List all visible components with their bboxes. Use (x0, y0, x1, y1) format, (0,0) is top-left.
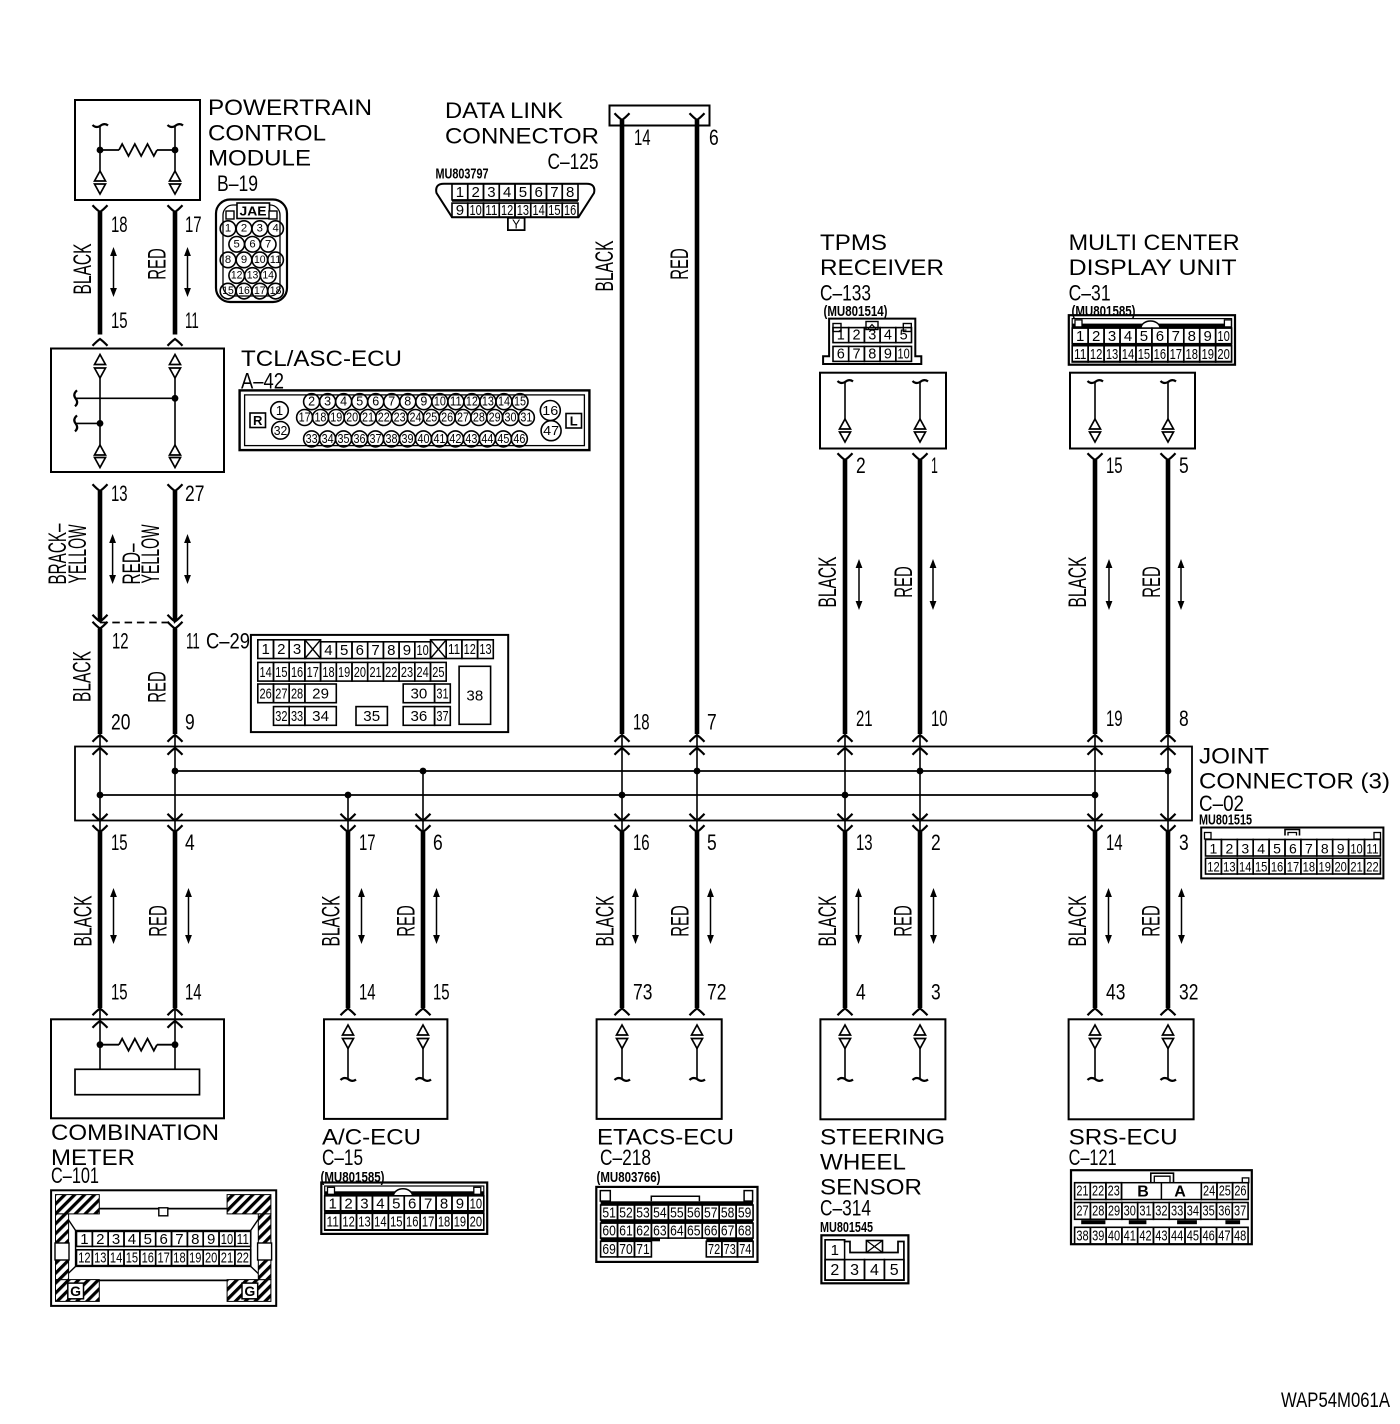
C-133 cell 8 (864, 346, 880, 361)
C-29 cell 24 (415, 662, 431, 681)
svg-text:10: 10 (1350, 840, 1363, 856)
TCL internal wire (99, 378, 101, 445)
svg-text:B–19: B–19 (217, 171, 258, 196)
svg-text:10: 10 (417, 642, 429, 659)
svg-text:43: 43 (1155, 1228, 1167, 1244)
svg-text:JAE: JAE (240, 204, 267, 219)
wire DLC pin 14 to joint pin 18 (BLACK) (620, 120, 625, 734)
svg-text:44: 44 (481, 432, 493, 446)
svg-text:27: 27 (185, 481, 204, 506)
C-133 cell 3 (864, 328, 880, 343)
svg-text:5: 5 (340, 642, 348, 659)
svg-text:11: 11 (1366, 840, 1379, 856)
svg-text:33: 33 (306, 432, 318, 446)
joint bottom edge chevrons (416, 814, 431, 821)
svg-text:54: 54 (653, 1205, 666, 1222)
svg-text:25: 25 (1219, 1184, 1231, 1200)
svg-text:74: 74 (739, 1241, 751, 1258)
wire PCM pin 17 to TCL pin 11 (RED) (168, 205, 183, 212)
A-42 pin 4 (336, 394, 352, 410)
svg-text:20: 20 (1217, 346, 1229, 363)
joint bottom edge chevrons (341, 814, 356, 821)
meter internal block (75, 1069, 200, 1094)
A-42 pin 46 (511, 431, 527, 447)
component MULTI CENTER DISPLAY UNIT box (1070, 373, 1195, 449)
svg-text:7: 7 (265, 238, 271, 250)
C-218 cell 67 (719, 1223, 736, 1238)
C-101 cell 18 (172, 1250, 188, 1266)
svg-text:11: 11 (485, 202, 497, 219)
A-42 pin 3 (320, 394, 336, 410)
svg-text:C–133: C–133 (820, 281, 871, 306)
C-02 cell 4 (1253, 840, 1269, 857)
svg-text:14: 14 (262, 270, 274, 282)
svg-text:16: 16 (542, 403, 558, 418)
C-29 cell 34 (305, 707, 336, 726)
svg-text:56: 56 (687, 1205, 700, 1222)
C-121 cell 28 (1090, 1203, 1106, 1220)
arrow (858, 562, 860, 607)
C-218 cell 64 (668, 1223, 685, 1238)
svg-text:18: 18 (314, 411, 326, 425)
svg-text:5: 5 (890, 1262, 899, 1279)
svg-text:1: 1 (225, 223, 231, 235)
svg-text:38: 38 (386, 432, 398, 446)
C-02 cell 16 (1269, 858, 1285, 874)
joint internal wire (black) (99, 748, 101, 832)
svg-text:G: G (70, 1283, 81, 1299)
A-42 pin 37 (368, 431, 384, 447)
C-121 cell 34 (1185, 1203, 1201, 1220)
svg-text:3: 3 (257, 223, 263, 235)
svg-text:RED: RED (1138, 566, 1166, 598)
svg-text:30: 30 (411, 685, 428, 702)
C-29 cell 6 (352, 642, 368, 659)
svg-text:2: 2 (856, 453, 866, 478)
bus junction dot (1092, 792, 1099, 799)
C-101 cell 21 (219, 1250, 235, 1266)
C-02 cell 10 (1349, 840, 1365, 857)
svg-text:16: 16 (1271, 859, 1284, 875)
svg-text:3: 3 (487, 184, 495, 201)
C-125 cell 6 (531, 184, 547, 200)
svg-text:17: 17 (422, 1214, 434, 1231)
svg-text:8: 8 (387, 642, 395, 659)
A-42 pin 5 (352, 394, 368, 410)
svg-text:Y: Y (512, 218, 521, 232)
svg-text:37: 37 (370, 432, 382, 446)
svg-text:9: 9 (1204, 328, 1212, 345)
svg-text:17: 17 (299, 411, 311, 425)
C-29 cell 9 (399, 642, 415, 659)
svg-text:8: 8 (1188, 328, 1196, 345)
C-101 G box right (242, 1283, 258, 1299)
bus junction dot (345, 792, 352, 799)
svg-text:8: 8 (225, 254, 231, 266)
svg-text:(MU803766): (MU803766) (597, 1169, 661, 1186)
C-29 cell 2 (274, 640, 290, 659)
svg-text:22: 22 (1092, 1184, 1104, 1200)
C-02 cell 5 (1269, 840, 1285, 857)
svg-text:43: 43 (465, 432, 477, 446)
B-19 pin 4 (268, 221, 284, 237)
C-101 side notches (55, 1243, 69, 1260)
C-218 cell 58 (719, 1205, 736, 1220)
svg-text:9: 9 (456, 1195, 464, 1212)
svg-text:14: 14 (374, 1214, 386, 1231)
svg-text:9: 9 (185, 710, 195, 735)
svg-text:10: 10 (470, 1195, 482, 1212)
wire joint to bottom component (RED) (173, 832, 178, 1008)
C-02 cell 14 (1237, 858, 1253, 874)
svg-text:13: 13 (358, 1214, 370, 1231)
A-42 pin 25 (423, 410, 439, 426)
connector C-218 drawing (596, 1187, 757, 1262)
C-101 cell 4 (124, 1231, 140, 1246)
wire joint to bottom component (RED) (1166, 832, 1171, 1008)
svg-text:4: 4 (128, 1231, 136, 1248)
C-101 cell 20 (203, 1250, 219, 1266)
connector C-31 drawing (1069, 315, 1235, 365)
svg-text:32: 32 (1179, 980, 1198, 1005)
svg-text:5: 5 (707, 830, 717, 855)
wire joint to bottom component (BLACK) (843, 832, 848, 1008)
C-121 cell 21 (1075, 1183, 1091, 1200)
C-133 cell 1 (833, 328, 849, 343)
PCM internal right wire with hook (168, 124, 184, 127)
C-125 cell 8 (562, 184, 578, 200)
svg-text:13: 13 (247, 270, 259, 282)
joint top edge chevron (913, 748, 928, 755)
C-29 cell 4 (321, 642, 337, 659)
svg-text:1: 1 (261, 641, 269, 658)
component COMBINATION METER box (51, 1019, 224, 1118)
C-02 cell 9 (1333, 840, 1349, 857)
svg-text:7: 7 (1305, 840, 1313, 856)
svg-text:35: 35 (1203, 1203, 1215, 1219)
C-125 cell 11 (484, 203, 500, 217)
svg-text:6: 6 (356, 642, 364, 659)
joint bottom edge chevrons (913, 814, 928, 821)
C-101 cell 19 (187, 1250, 203, 1266)
C-29 cell 18 (321, 662, 337, 681)
svg-text:36: 36 (411, 708, 428, 725)
C-02 cell 17 (1285, 858, 1301, 874)
svg-text:12: 12 (231, 270, 243, 282)
svg-text:10: 10 (1217, 328, 1229, 345)
C-15 cell 20 (468, 1213, 484, 1230)
svg-text:6: 6 (159, 1231, 167, 1248)
svg-text:10: 10 (898, 346, 910, 362)
svg-text:3: 3 (293, 641, 301, 658)
A-42 L box (566, 414, 582, 429)
connector A-42 drawing (240, 390, 590, 450)
C-31 cell 18 (1184, 346, 1200, 362)
C-31 cell 10 (1216, 328, 1232, 344)
svg-text:RED: RED (667, 905, 695, 937)
C-121 cell 23 (1106, 1183, 1122, 1200)
wire TPMS pin 2 to joint pin 21 (BLACK) (838, 453, 853, 460)
A-42 pin 33 (304, 431, 320, 447)
C-125 cell 9 (452, 203, 468, 217)
joint bottom edge chevrons (838, 814, 853, 821)
C-218 cell 53 (634, 1205, 651, 1220)
C-218 cell 63 (651, 1223, 668, 1238)
svg-text:2: 2 (277, 641, 285, 658)
svg-text:63: 63 (653, 1223, 666, 1240)
svg-text:15: 15 (126, 1250, 138, 1267)
svg-text:34: 34 (312, 708, 329, 725)
A-42 pin 28 (471, 410, 487, 426)
C-101 cell 6 (156, 1231, 172, 1246)
svg-text:17: 17 (1287, 859, 1300, 875)
svg-text:34: 34 (1187, 1203, 1199, 1219)
C-29 cell 12 (462, 640, 478, 659)
svg-text:39: 39 (401, 432, 413, 446)
svg-text:33: 33 (291, 708, 303, 725)
C-314 cell 3 (845, 1260, 865, 1281)
C-15 cell 17 (420, 1213, 436, 1230)
C-02 cell 1 (1206, 840, 1222, 857)
svg-text:5: 5 (1179, 453, 1189, 478)
C-121 cell 45 (1185, 1227, 1201, 1244)
C-121 cell 46 (1201, 1227, 1217, 1244)
svg-text:B: B (1137, 1184, 1149, 1201)
joint internal wire (red) (422, 771, 424, 832)
bus junction dot (842, 792, 849, 799)
svg-text:14: 14 (110, 1250, 122, 1267)
svg-text:11: 11 (186, 629, 200, 654)
C-121 cell 43 (1153, 1227, 1169, 1244)
svg-text:MULTI CENTER: MULTI CENTER (1069, 230, 1240, 255)
svg-text:12: 12 (342, 1214, 354, 1231)
C-133 cell 5 (896, 328, 912, 343)
svg-text:9: 9 (884, 346, 892, 362)
svg-text:RECEIVER: RECEIVER (820, 255, 944, 280)
A-42 pin 19 (328, 410, 344, 426)
joint internal wire (black) (1094, 748, 1096, 832)
svg-text:20: 20 (346, 411, 358, 425)
C-29 cell 35 (356, 707, 387, 726)
C-31 cell 3 (1104, 328, 1120, 344)
svg-text:RED: RED (144, 248, 172, 280)
C-29 cell 17 (305, 662, 321, 681)
svg-text:6: 6 (837, 346, 845, 362)
svg-text:13: 13 (111, 481, 128, 506)
C-15 cell 11 (325, 1213, 341, 1230)
C-121 cell 22 (1090, 1183, 1106, 1200)
svg-text:15: 15 (1138, 346, 1150, 363)
A-42 pin 30 (503, 410, 519, 426)
svg-text:(MU801514): (MU801514) (824, 303, 888, 320)
svg-text:18: 18 (1303, 859, 1316, 875)
svg-text:7: 7 (550, 184, 558, 201)
A-42 pin 21 (360, 410, 376, 426)
C-29 cell 26 (258, 684, 274, 703)
svg-text:18: 18 (111, 212, 128, 237)
SRS internal terminal (1090, 1025, 1101, 1035)
svg-text:38: 38 (1076, 1228, 1088, 1244)
C-218 cell 60 (601, 1223, 618, 1238)
svg-text:42: 42 (449, 432, 461, 446)
svg-text:2: 2 (241, 223, 247, 235)
C-218 cell 71 (634, 1241, 651, 1257)
svg-text:41: 41 (433, 432, 445, 446)
connector B-19 drawing (JAE) (216, 200, 287, 303)
svg-text:R: R (253, 413, 263, 428)
svg-text:BLACK: BLACK (591, 240, 619, 291)
wire joint to bottom component (BLACK) (620, 832, 625, 1008)
A-42 pin 14 (496, 394, 512, 410)
C-218 cell 68 (736, 1223, 753, 1238)
svg-text:37: 37 (1234, 1203, 1246, 1219)
svg-text:7: 7 (707, 710, 717, 735)
svg-text:2: 2 (1225, 840, 1233, 856)
C-101 cell 11 (235, 1231, 251, 1246)
SWS internal terminal (915, 1025, 926, 1035)
B-19 pin 3 (252, 221, 268, 237)
svg-text:RED: RED (890, 566, 918, 598)
svg-text:12: 12 (78, 1250, 90, 1267)
TCL terminal triangles top (95, 355, 106, 365)
joint internal wire (red) (1167, 748, 1169, 832)
C-101 top tab (159, 1208, 168, 1216)
C-218 cell 70 (618, 1241, 635, 1257)
C-31 cell 15 (1136, 346, 1152, 362)
svg-text:3: 3 (1241, 840, 1249, 856)
svg-text:20: 20 (354, 664, 366, 681)
C-218 top-left tab (600, 1191, 610, 1202)
connector boundary C-29 dashed line (100, 622, 175, 624)
svg-text:C–125: C–125 (548, 149, 599, 174)
svg-text:6: 6 (372, 395, 379, 409)
B-19 pin 8 (220, 252, 236, 268)
svg-text:20: 20 (111, 710, 130, 735)
svg-text:28: 28 (291, 685, 303, 702)
svg-text:26: 26 (1234, 1184, 1246, 1200)
C-29 cell 14 (258, 662, 274, 681)
svg-text:C–101: C–101 (51, 1163, 99, 1188)
C-31 cell 4 (1120, 328, 1136, 344)
C-29 cell 38 (459, 666, 491, 724)
C-29 cell 28 (289, 684, 305, 703)
svg-text:TCL/ASC-ECU: TCL/ASC-ECU (241, 346, 402, 371)
svg-text:5: 5 (519, 184, 527, 201)
svg-text:RED: RED (890, 905, 918, 937)
svg-text:STEERING: STEERING (820, 1124, 945, 1149)
C-29 cell 25 (431, 662, 447, 681)
C-125 cell 14 (531, 203, 547, 217)
svg-text:72: 72 (707, 980, 726, 1005)
svg-text:3: 3 (360, 1195, 368, 1212)
svg-text:36: 36 (1218, 1203, 1230, 1219)
A-42 pin 38 (384, 431, 400, 447)
svg-text:46: 46 (1203, 1228, 1215, 1244)
svg-text:47: 47 (1218, 1228, 1230, 1244)
svg-text:C–218: C–218 (600, 1145, 651, 1170)
C-218 top-right tab (744, 1191, 753, 1202)
component ETACS-ECU box (597, 1019, 722, 1119)
svg-text:15: 15 (1106, 453, 1123, 478)
svg-text:6: 6 (1289, 840, 1297, 856)
svg-text:14: 14 (185, 980, 202, 1005)
A-42 pin 26 (439, 410, 455, 426)
svg-text:POWERTRAIN: POWERTRAIN (208, 95, 372, 120)
C-31 cell 5 (1136, 328, 1152, 344)
C-31 cell 13 (1104, 346, 1120, 362)
svg-text:18: 18 (173, 1250, 185, 1267)
C-314 cell 1 (825, 1240, 845, 1260)
svg-text:60: 60 (602, 1223, 615, 1240)
svg-text:7: 7 (853, 346, 861, 362)
svg-text:YELLOW: YELLOW (137, 524, 165, 583)
C-31 cell 17 (1168, 346, 1184, 362)
svg-text:11: 11 (326, 1214, 338, 1231)
C-02 cell 19 (1317, 858, 1333, 874)
svg-text:29: 29 (1108, 1203, 1120, 1219)
B-19 pin 1 (220, 221, 236, 237)
svg-text:6: 6 (408, 1195, 416, 1212)
C-15 cell 16 (404, 1213, 420, 1230)
svg-text:16: 16 (142, 1250, 154, 1267)
svg-text:17: 17 (1170, 346, 1182, 363)
C-101 cell 7 (172, 1231, 188, 1246)
svg-text:22: 22 (385, 664, 397, 681)
C-15 cell 10 (468, 1196, 484, 1211)
C-31 cell 20 (1216, 346, 1232, 362)
connector C-121 drawing (1071, 1170, 1252, 1244)
svg-text:21: 21 (362, 411, 374, 425)
svg-text:21: 21 (1076, 1184, 1088, 1200)
C-101 G box left (68, 1283, 84, 1299)
C-101 inner trapezoid shell (61, 1209, 266, 1281)
svg-text:1: 1 (831, 1242, 839, 1259)
svg-text:BLACK: BLACK (70, 895, 98, 946)
svg-text:CONNECTOR: CONNECTOR (445, 124, 599, 149)
PCM internal resistor (100, 149, 119, 151)
component TCL/ASC-ECU A-42 box (51, 349, 224, 473)
svg-text:33: 33 (1171, 1203, 1183, 1219)
B-19 pin 16 (236, 283, 252, 299)
bus junction dot (420, 768, 427, 775)
C-101 cell 22 (235, 1250, 251, 1266)
svg-text:5: 5 (392, 1195, 400, 1212)
A-42 pin 18 (312, 410, 328, 426)
C-125 cell 15 (547, 203, 563, 217)
A-42 pin 20 (344, 410, 360, 426)
svg-text:4: 4 (340, 395, 347, 409)
C-29 cell 5 (336, 642, 352, 659)
C-101 cell 8 (187, 1231, 203, 1246)
svg-text:14: 14 (260, 664, 272, 681)
svg-text:5: 5 (356, 395, 363, 409)
B-19 pin 2 (236, 221, 252, 237)
svg-text:27: 27 (275, 685, 287, 702)
svg-text:2: 2 (308, 395, 315, 409)
C-218 cell 65 (685, 1223, 702, 1238)
C-121 cell 47 (1217, 1227, 1233, 1244)
C-125 Y tab (508, 218, 525, 230)
svg-text:15: 15 (390, 1214, 402, 1231)
A-42 pin 43 (463, 431, 479, 447)
svg-text:3: 3 (1179, 830, 1189, 855)
svg-text:9: 9 (241, 254, 247, 266)
A-42 pin 2 (304, 394, 320, 410)
svg-text:45: 45 (497, 432, 509, 446)
svg-text:C–314: C–314 (820, 1196, 871, 1221)
C-31 cell 14 (1120, 346, 1136, 362)
C-121 cell 41 (1122, 1227, 1138, 1244)
